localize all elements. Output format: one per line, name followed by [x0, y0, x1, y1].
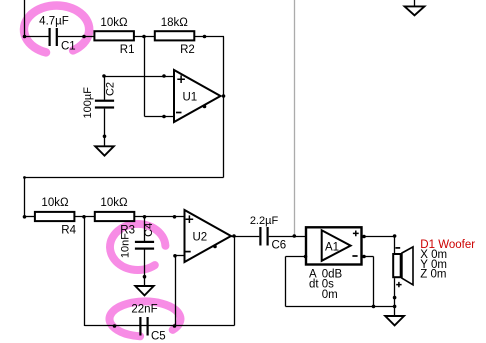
node A1 pin lower-right: [362, 255, 366, 259]
node R1-R2 junction: [142, 35, 146, 39]
wire A1 - down to bottom rail: [373, 257, 375, 307]
svg-text:C1: C1: [61, 41, 76, 53]
svg-text:10kΩ: 10kΩ: [100, 197, 128, 209]
wire C2 top lead: [104, 77, 106, 100]
wire to R4: [25, 216, 36, 218]
capacitor C1: [49, 28, 58, 46]
capacitor C2: [95, 100, 114, 109]
node U2 + pin: [173, 215, 177, 219]
svg-text:C5: C5: [151, 331, 166, 343]
wire feedback vertical down to U1 output and lower rail: [223, 37, 225, 178]
svg-text:4.7µF: 4.7µF: [39, 16, 69, 28]
wire speaker top lead: [394, 237, 396, 255]
wire speaker bottom lead: [394, 278, 396, 316]
wire R1 to R2: [135, 36, 156, 38]
node U1 + pin: [162, 74, 166, 78]
wire C6 to A1: [269, 236, 306, 238]
svg-text:R1: R1: [120, 44, 135, 56]
wire feedback vertical U2 output down: [234, 237, 236, 326]
capacitor C4: [135, 241, 154, 250]
wire C2 bottom lead: [104, 109, 106, 147]
resistor R2: [155, 31, 195, 40]
node U2 - pin: [173, 254, 177, 258]
node R3 right pin / C4 top: [143, 215, 147, 219]
node bottom rail junction: [393, 305, 397, 309]
node C6 right pin: [293, 234, 297, 238]
wire U1 - input: [145, 116, 175, 118]
wire R4 to R3: [75, 216, 96, 218]
svg-text:100µF: 100µF: [82, 87, 94, 119]
wire bottom rail: [286, 306, 395, 308]
node R1 left pin: [82, 35, 86, 39]
wire lower rail from U1 output: [25, 177, 224, 179]
node at C1 left pin: [23, 35, 27, 39]
wire feedback left vertical: [285, 257, 287, 307]
wire A1 lower-left feedback stub: [286, 256, 307, 258]
wire feedback from R1-R2 junction down to U1 -: [144, 37, 146, 117]
svg-text:10kΩ: 10kΩ: [100, 17, 128, 29]
node A1 pin lower-left: [304, 255, 308, 259]
wire gray vertical probe: [294, 0, 296, 237]
annotation ellipse around C1: [24, 6, 89, 53]
ground top-right: [405, 6, 425, 15]
svg-text:10nF: 10nF: [119, 233, 131, 258]
svg-text:18kΩ: 18kΩ: [161, 17, 189, 29]
svg-text:U2: U2: [193, 231, 208, 243]
wire C5 rail: [85, 325, 235, 327]
node on U1 lower edge: [203, 105, 207, 109]
wire U1 + input: [105, 76, 175, 78]
wire U2 output to C6: [231, 236, 259, 238]
wire R2 to corner: [195, 36, 225, 38]
node C2 bottom pin: [103, 135, 107, 139]
ground below speaker: [385, 316, 404, 325]
node U1 - pin: [162, 115, 166, 119]
wire C4 top lead: [144, 217, 146, 242]
node R4 left pin: [23, 215, 27, 219]
node R2 right pin: [203, 35, 207, 39]
svg-text:U1: U1: [183, 91, 198, 103]
node C5 right pin: [173, 324, 177, 328]
op-amp U1: [174, 70, 221, 122]
annotation ellipse around C4: [110, 224, 165, 270]
svg-text:2.2µF: 2.2µF: [250, 215, 279, 227]
wire R3 to U2 + input: [135, 216, 186, 218]
resistor R3: [95, 212, 135, 221]
wire C1 to R1: [58, 36, 95, 38]
capacitor C5: [139, 317, 148, 336]
wire top-right ground stub: [414, 0, 416, 7]
wire U2 - down to C5 rail: [175, 256, 177, 327]
wire input vertical top-left: [24, 0, 26, 37]
svg-text:Z 0m: Z 0m: [420, 269, 446, 281]
wire A1 + output to speaker: [362, 236, 395, 238]
annotation ellipse around C5: [109, 301, 180, 336]
node A1 - rail junction: [372, 305, 376, 309]
speaker D1: [393, 247, 413, 287]
resistor R4: [35, 212, 75, 221]
node R4-R3 junction: [82, 215, 86, 219]
node on U2 lower edge: [213, 245, 217, 249]
svg-text:R2: R2: [180, 44, 195, 56]
svg-text:0m: 0m: [322, 289, 338, 301]
wire junction down to C5 rail: [84, 217, 86, 327]
wire to C1: [25, 36, 49, 38]
ground below C4: [135, 286, 153, 295]
svg-text:10kΩ: 10kΩ: [41, 197, 69, 209]
ground below C2: [95, 146, 114, 155]
node speaker bottom pin: [393, 296, 397, 300]
op-amp U2: [185, 210, 232, 262]
wire U2 - input stub: [176, 255, 186, 257]
node C5 left pin: [113, 324, 117, 328]
wire C4 bottom lead: [144, 250, 146, 287]
node speaker top pin: [393, 234, 397, 238]
svg-text:A1: A1: [325, 242, 339, 254]
svg-text:R4: R4: [61, 225, 76, 237]
svg-text:22nF: 22nF: [131, 304, 157, 316]
wire left vertical down to R4: [24, 178, 26, 218]
svg-text:C6: C6: [272, 240, 287, 252]
wire A1 - output stub: [362, 256, 374, 258]
capacitor C6: [259, 227, 268, 246]
svg-text:C4: C4: [143, 223, 155, 237]
node C4 bottom pin: [143, 275, 147, 279]
amplifier block A1: [306, 227, 362, 264]
node U2 output: [232, 234, 236, 238]
node C2 top: [102, 74, 106, 78]
node corner: [23, 176, 26, 179]
node A1 + pin: [362, 235, 366, 239]
svg-text:C2: C2: [105, 82, 117, 96]
node U1 output: [222, 94, 226, 98]
resistor R1: [94, 31, 133, 40]
